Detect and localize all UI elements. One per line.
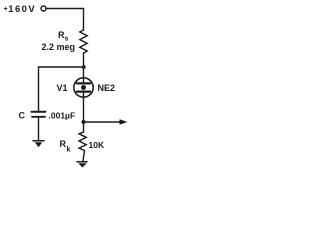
lamp bottom electrode	[77, 90, 90, 92]
resistor Rs zigzag	[80, 30, 87, 53]
ground (below capacitor)	[33, 141, 44, 147]
lamp top electrode	[77, 82, 90, 84]
node junction A (rail to capacitor branch)	[82, 65, 86, 69]
label +160V supply	[4, 4, 36, 15]
resistor Rk zigzag	[79, 132, 86, 150]
wire rail from Rs to lamp	[83, 53, 85, 78]
neon lamp V1 circle	[74, 78, 93, 97]
lamp gas dot	[81, 85, 86, 90]
label Rs	[58, 30, 69, 43]
svg-text:k: k	[67, 147, 71, 154]
wire below capacitor to ground	[38, 118, 40, 140]
lamp top lead	[83, 78, 85, 83]
wire top horizontal from terminal to rail corner	[46, 8, 84, 10]
wire horizontal from node A to capacitor branch	[39, 66, 84, 68]
wire below Rk to ground	[83, 150, 85, 161]
svg-text:+: +	[4, 6, 8, 13]
label Rk	[60, 139, 71, 154]
wire output horizontal	[84, 121, 121, 123]
output arrowhead	[120, 119, 128, 125]
svg-text:10K: 10K	[89, 140, 105, 150]
svg-text:R: R	[60, 139, 67, 149]
svg-text:C: C	[19, 111, 26, 121]
node junction B (output tap)	[81, 120, 85, 124]
terminal (supply input circle)	[41, 6, 46, 11]
svg-text:.001µF: .001µF	[49, 111, 76, 121]
svg-text:160V: 160V	[8, 4, 36, 15]
svg-text:2.2 meg: 2.2 meg	[42, 42, 76, 52]
wire capacitor branch vertical down	[38, 67, 40, 111]
capacitor C bottom plate	[32, 116, 45, 118]
svg-text:V1: V1	[57, 83, 68, 93]
svg-text:NE2: NE2	[98, 83, 116, 93]
capacitor C top plate	[32, 111, 46, 113]
wire rail from lamp to Rk	[83, 97, 85, 132]
wire rail top segment down to Rs	[83, 9, 85, 31]
ground (below Rk)	[77, 162, 87, 168]
lamp bottom lead	[83, 92, 85, 98]
